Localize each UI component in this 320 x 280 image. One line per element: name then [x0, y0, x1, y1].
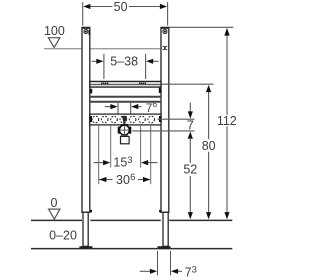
dimension 306 line right	[138, 179, 151, 181]
dimension 7 arrow down	[188, 111, 193, 118]
right rail foot nub	[159, 210, 161, 212]
dimension 73 arrow left	[150, 269, 157, 274]
svg-text:3: 3	[192, 264, 197, 275]
reference line for 80	[162, 83, 214, 85]
svg-text:7: 7	[146, 103, 152, 115]
dimension 50 extension line right	[167, 2, 169, 26]
level triangle 0	[49, 209, 60, 219]
dimension 50 arrow right	[160, 4, 167, 9]
top rail screw dots group 2	[139, 83, 146, 85]
dimension 153 stub left	[94, 162, 104, 164]
dimension 80 vertical line upper	[208, 91, 210, 140]
reference line hole axis	[158, 118, 195, 120]
meter line left of left rail	[44, 48, 82, 50]
left rail top edge nub	[89, 30, 91, 35]
svg-text:100: 100	[44, 24, 65, 38]
right foot plate	[158, 246, 171, 249]
drain fitting cross	[123, 126, 125, 134]
right leg	[163, 212, 168, 246]
drain fitting right flange	[129, 127, 132, 134]
rail holes dashed circles	[92, 116, 154, 123]
dimension 80 arrow down	[206, 212, 211, 219]
svg-text:6: 6	[130, 172, 135, 183]
dimension 5-38 stub left	[92, 60, 97, 62]
dimension 50 line left segment	[90, 6, 113, 8]
dimension 52 vertical line lower	[189, 176, 191, 214]
right rail top cap	[161, 27, 169, 29]
dimension 306 arrow left	[99, 177, 106, 182]
left rail foot nub	[90, 210, 92, 212]
clamp nub right at holes rail	[159, 116, 161, 122]
meter line between rails	[90, 48, 161, 50]
dimension 73 stub right	[178, 270, 182, 272]
dimension 73 extension right	[170, 251, 172, 275]
drain outlet box	[121, 136, 130, 143]
dimension 76 tick left	[117, 103, 119, 114]
dimension 153 arrow left	[103, 160, 110, 165]
dimension 50 extension line left	[82, 2, 84, 26]
dimension 76 arrow left	[110, 104, 117, 109]
dimension 7 stem upper	[189, 103, 191, 114]
svg-text:0–20: 0–20	[49, 229, 77, 243]
reference line top for 112	[169, 26, 233, 28]
finished floor line segment 2	[90, 219, 160, 221]
dimension 153 extension left	[110, 125, 112, 168]
clamp nub left upper	[90, 89, 92, 94]
clamp nub right upper	[159, 88, 161, 93]
top rail screw dots group 1	[101, 83, 108, 85]
dimension 5-38 arrow right	[146, 59, 153, 64]
svg-text:3: 3	[127, 155, 132, 166]
right rail body	[161, 27, 169, 212]
dimension 5-38 arrow left	[96, 59, 103, 64]
svg-text:7: 7	[187, 118, 194, 132]
finished floor line segment 3	[169, 219, 232, 221]
dimension 76 stub left	[105, 106, 111, 108]
dimension 80 vertical line lower	[208, 152, 210, 214]
top rail mid line	[90, 83, 160, 85]
dimension 153 extension right	[140, 125, 142, 168]
svg-text:52: 52	[183, 163, 197, 177]
dimension 306 extension right	[150, 125, 152, 184]
dimension 50 arrow left	[83, 4, 90, 9]
dimension 112 vertical line lower	[226, 126, 228, 213]
dimension 52 arrow down	[188, 212, 193, 219]
dimension 80 arrow up	[206, 85, 211, 92]
dimension 5-38 extension line left	[103, 54, 105, 79]
left rail top hole	[84, 30, 88, 34]
right rail mid slot	[162, 46, 167, 48]
left leg	[83, 212, 88, 246]
dimension 5-38 stub right	[153, 60, 159, 62]
dimension 306 line left	[99, 179, 113, 181]
svg-text:50: 50	[114, 0, 128, 14]
reference line trap axis	[132, 130, 194, 132]
svg-text:0: 0	[51, 196, 58, 210]
dimension 52 vertical line upper	[189, 138, 191, 163]
svg-text:5–38: 5–38	[110, 55, 138, 69]
dimension 112 vertical line upper	[226, 34, 228, 115]
dimension 73 stub left	[140, 270, 151, 272]
left rail body	[82, 27, 90, 212]
raw floor line	[31, 248, 232, 250]
svg-text:7: 7	[185, 265, 192, 279]
dimension 7 arrow up	[188, 132, 193, 139]
dimension 73 extension left	[157, 251, 159, 275]
svg-text:6: 6	[152, 99, 157, 109]
drain fitting circle	[120, 125, 130, 135]
dimension 50 line right segment	[129, 6, 160, 8]
drain fitting left flange	[118, 127, 121, 134]
top mounting rail bar	[90, 81, 161, 87]
left rail top cap	[82, 27, 90, 29]
clamp nub left at holes rail	[90, 116, 92, 122]
crossbar line A	[90, 96, 161, 98]
finished floor line segment 1	[31, 219, 82, 221]
dimension 5-38 extension line right	[145, 54, 147, 79]
dimension 76 tick right	[130, 103, 132, 114]
crossbar line B	[90, 101, 161, 103]
right rail top hole	[163, 30, 167, 34]
drain fitting funnel	[122, 116, 127, 124]
svg-text:30: 30	[116, 173, 130, 187]
dimension 306 arrow right	[143, 177, 150, 182]
left foot plate	[79, 246, 92, 249]
drain fitting neck	[121, 135, 123, 137]
dimension 112 arrow down	[224, 212, 229, 219]
svg-text:80: 80	[202, 139, 216, 153]
dimension 306 extension left	[98, 125, 100, 184]
dimension 73 arrow right	[171, 269, 178, 274]
level triangle 100	[48, 38, 60, 48]
bottom support rail with holes	[90, 114, 161, 125]
svg-text:15: 15	[113, 156, 127, 170]
svg-text:112: 112	[217, 114, 237, 128]
dimension 76 stub right	[138, 106, 141, 108]
dimension 76 arrow right	[131, 104, 138, 109]
dimension 153 stub right	[148, 162, 158, 164]
dimension 153 arrow right	[141, 160, 148, 165]
dimension 112 arrow up	[224, 28, 229, 36]
